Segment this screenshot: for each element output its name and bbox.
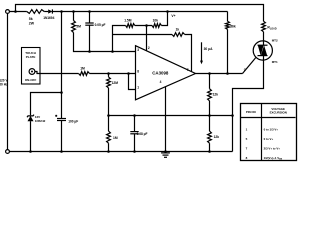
svg-text:12k: 12k: [213, 92, 219, 96]
triac gate lead: [243, 58, 256, 74]
node divider tee: [111, 50, 114, 53]
svg-text:8: 8: [137, 70, 139, 74]
zener diode 12V 1N5242: [28, 116, 34, 121]
svg-text:60 Hz: 60 Hz: [0, 82, 8, 86]
svg-text:12k: 12k: [214, 135, 220, 139]
node pin1 tee: [127, 72, 130, 75]
svg-text:2: 2: [148, 46, 150, 50]
svg-text:10k: 10k: [153, 19, 159, 23]
svg-text:CA3098: CA3098: [152, 71, 169, 76]
resistor R3 1.5M: [126, 24, 135, 28]
node supply drop: [60, 10, 63, 13]
node cap005 top: [88, 10, 91, 13]
touch plate contact symbol: [29, 69, 35, 75]
wire V+ rail segment c: [52, 11, 227, 13]
node cap005 pin3row: [88, 50, 91, 53]
resistor R6 1M: [79, 72, 90, 76]
node 10k V+ junction: [166, 10, 169, 13]
node rail zener: [29, 150, 32, 153]
wire cap005 bottom: [89, 25, 91, 51]
wire bottom rail: [9, 151, 232, 153]
node 56k output: [226, 72, 229, 75]
wire 12k upper bottom: [209, 101, 211, 116]
wire output: [196, 73, 243, 75]
node 12M tee: [107, 72, 110, 75]
node divider mid: [208, 114, 211, 117]
svg-text:2W: 2W: [29, 22, 35, 26]
wire supply drop vertical: [61, 12, 63, 93]
node 12k upper top: [208, 72, 211, 75]
svg-text:5M: 5M: [76, 24, 81, 28]
wire to zener branch: [31, 93, 62, 116]
wire cap005 top: [89, 12, 91, 23]
wire 12M to mid: [108, 88, 110, 131]
wire V+ rail segment a: [9, 11, 26, 13]
wire zener to rail: [30, 121, 32, 151]
capacitor C2 0.05uF: [85, 22, 93, 24]
svg-text:MT1: MT1: [272, 60, 278, 64]
wire 12M top: [108, 74, 110, 77]
wire AC source vertical: [7, 13, 9, 149]
triac Q1 circle: [253, 41, 272, 60]
resistor R10 12k lower: [208, 131, 212, 143]
resistor R1 5k 2W: [27, 10, 44, 14]
wire cap068 top: [134, 116, 136, 132]
svg-text:1.5M: 1.5M: [124, 19, 132, 23]
svg-text:PIN NO: PIN NO: [246, 110, 257, 114]
node top-left junction: [14, 10, 17, 13]
svg-text:PLATE: PLATE: [26, 55, 36, 59]
node 5M top: [72, 10, 75, 13]
capacitor C1 100uF: [55, 115, 57, 117]
wire 5M top: [73, 12, 75, 21]
svg-text:0 to V+: 0 to V+: [264, 137, 274, 141]
svg-text:EXCURSION: EXCURSION: [270, 111, 287, 115]
annotation current arrow 30uA: [201, 42, 203, 61]
wire 1M lower to rail: [108, 143, 110, 151]
wire Rload to triac: [263, 32, 265, 41]
svg-text:1N5242: 1N5242: [35, 119, 46, 123]
wire cap100 bottom: [61, 121, 63, 152]
svg-text:100 µF: 100 µF: [68, 119, 78, 123]
node MT1 midwire: [231, 114, 234, 117]
touch plate box: [22, 48, 41, 85]
wire pin2: [146, 26, 148, 51]
wire 12k lower top: [209, 116, 211, 132]
svg-text:7: 7: [187, 68, 189, 72]
resistor R4 10k: [152, 24, 161, 28]
wire feedback right: [185, 35, 192, 72]
svg-text:4: 4: [160, 80, 162, 84]
svg-text:56k: 56k: [230, 25, 236, 29]
resistor R8 1M lower: [107, 131, 111, 143]
svg-text:12M: 12M: [112, 81, 119, 85]
wire 56k to output: [227, 29, 229, 73]
svg-text:0.05 µF: 0.05 µF: [95, 23, 106, 27]
svg-text:V+: V+: [171, 14, 175, 18]
svg-text:30 µA: 30 µA: [204, 47, 213, 51]
node midwire left: [107, 114, 110, 117]
capacitor C3 0.68uF: [130, 131, 138, 133]
resistor R7 12M: [107, 77, 111, 88]
svg-text:1: 1: [137, 85, 139, 89]
resistor R12 Rload: [262, 21, 266, 32]
triac Q1 symbol: [263, 41, 265, 45]
node rail 1M: [107, 150, 110, 153]
svg-text:1M: 1M: [113, 136, 118, 140]
resistor R5 1k feedback: [172, 33, 185, 37]
resistor R11 56k: [226, 21, 230, 29]
node rail cap068: [133, 150, 136, 153]
svg-text:1k: 1k: [176, 28, 180, 32]
wire divider vertical: [113, 26, 126, 52]
op-amp U1 CA3098: [136, 46, 196, 100]
wire 10k to V+: [161, 12, 167, 26]
ground symbol: [161, 152, 170, 154]
node pin2 junction: [145, 24, 148, 27]
wire cap068 bottom: [134, 134, 136, 152]
wire top rail: [16, 5, 264, 22]
wire 12k upper top: [209, 74, 211, 89]
node cap068 top: [133, 114, 136, 117]
svg-text:3: 3: [137, 48, 139, 52]
node zener-cap junction: [60, 91, 63, 94]
wire 5M to pin3 row: [74, 33, 136, 52]
svg-text:2/3 V+ to V+: 2/3 V+ to V+: [264, 146, 281, 150]
wire cap100 top: [61, 93, 63, 119]
diode D1 1N1694: [48, 9, 52, 13]
svg-text:1N1694: 1N1694: [43, 16, 54, 20]
node 12k rail: [208, 150, 211, 153]
wire 56k down: [227, 12, 229, 22]
wire 1M to pin8: [90, 73, 136, 75]
terminal AC input top: [6, 10, 10, 14]
svg-text:0.68 µF: 0.68 µF: [137, 132, 148, 136]
wire MT1 return: [233, 60, 264, 151]
svg-text:ON-OFF: ON-OFF: [25, 78, 37, 82]
terminal AC input bottom: [6, 150, 10, 154]
svg-text:0 to 1/3 V+: 0 to 1/3 V+: [264, 127, 279, 131]
node rail pin4: [164, 150, 167, 153]
resistor R2 5M: [72, 21, 76, 33]
svg-text:5k: 5k: [29, 17, 33, 21]
resistor R9 12k upper: [208, 89, 212, 101]
wire divider mid: [135, 25, 152, 27]
svg-text:MT2: MT2: [272, 39, 278, 43]
node rail cap100: [60, 150, 63, 153]
wire pin4 down: [165, 87, 167, 152]
wire V+ rail segment b: [44, 11, 48, 13]
wire pin1 branch: [129, 74, 136, 90]
wire mid node row: [109, 115, 233, 117]
table voltage excursions box: [241, 104, 297, 161]
svg-text:1M: 1M: [80, 67, 85, 71]
wire 12k lower bottom: [209, 143, 211, 151]
wire feedback left: [113, 34, 173, 36]
wire touch to pin8: [35, 72, 79, 74]
